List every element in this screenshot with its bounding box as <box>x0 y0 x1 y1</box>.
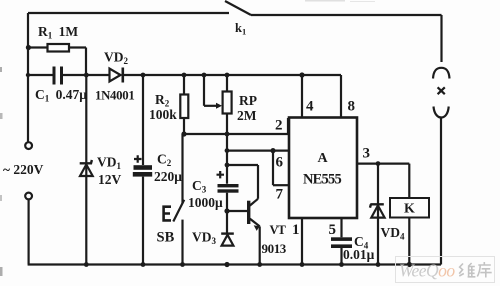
svg-text:7: 7 <box>276 187 284 203</box>
svg-text:~ 220V: ~ 220V <box>3 162 44 177</box>
svg-text:5: 5 <box>329 222 337 238</box>
svg-text:SB: SB <box>157 230 175 246</box>
svg-text:8: 8 <box>348 99 356 115</box>
svg-text:1000μ: 1000μ <box>188 195 223 210</box>
svg-text:2: 2 <box>275 118 283 134</box>
svg-text:220μ: 220μ <box>154 169 182 184</box>
svg-text:12V: 12V <box>98 172 122 187</box>
svg-text:RP: RP <box>239 93 257 108</box>
svg-text:K: K <box>404 202 415 217</box>
svg-text:C1 0.47μ: C1 0.47μ <box>35 87 87 104</box>
svg-text:100k: 100k <box>149 107 177 122</box>
svg-text:1: 1 <box>292 222 300 238</box>
svg-text:4: 4 <box>306 99 314 115</box>
svg-text:1N4001: 1N4001 <box>95 89 134 103</box>
svg-text:3: 3 <box>363 146 371 162</box>
svg-text:VT: VT <box>270 223 287 237</box>
svg-text:R1 1M: R1 1M <box>38 24 78 41</box>
svg-text:2M: 2M <box>237 108 257 123</box>
svg-text:WeeQoo: WeeQoo <box>399 261 455 281</box>
svg-text:A: A <box>318 151 329 166</box>
svg-text:0.01μ: 0.01μ <box>343 247 375 262</box>
svg-text:9013: 9013 <box>262 241 287 256</box>
svg-text:6: 6 <box>276 155 284 171</box>
svg-text:NE555: NE555 <box>303 172 341 188</box>
